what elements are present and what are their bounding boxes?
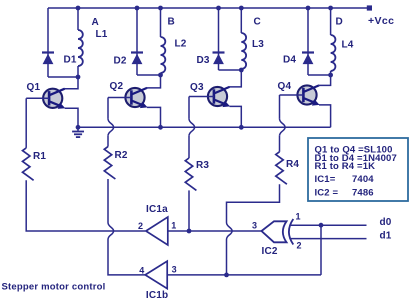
Q3 collector wire: [229, 70, 242, 87]
wire diode branch stage 4: [307, 8, 309, 75]
inverter IC1b (7404): [145, 261, 167, 288]
+Vcc terminal square: [367, 5, 372, 10]
wire stage 4 bottom junction: [308, 74, 331, 76]
wire emitter ground bus: [78, 126, 331, 128]
svg-text:C: C: [254, 17, 261, 28]
svg-text:R4: R4: [286, 159, 299, 170]
svg-text:d0: d0: [380, 217, 392, 228]
svg-text:D4: D4: [283, 55, 296, 66]
wire stage 1 bottom junction: [48, 76, 78, 78]
wire Q4 base drop (jumps bus): [279, 95, 281, 119]
svg-text:R3: R3: [196, 160, 209, 171]
wire diode branch stage 3: [218, 8, 220, 70]
op-amp/inverter IC1a (7404): [146, 217, 168, 245]
wire Q3 base drop (jumps bus): [188, 97, 190, 119]
svg-text:D2: D2: [114, 56, 127, 67]
wire d0 branch down to IC1b input: [320, 225, 322, 275]
svg-text:Stepper motor control: Stepper motor control: [2, 282, 106, 293]
node Q2 emitter on bus: [158, 125, 163, 130]
node stage 4 collector junction: [328, 73, 333, 78]
IC2 xor second input arc: [289, 219, 293, 245]
svg-text:L1: L1: [96, 29, 108, 40]
node stage 3 collector junction: [239, 68, 244, 73]
node A rail connections: [76, 6, 81, 11]
svg-text:IC1a: IC1a: [146, 204, 168, 215]
diode D4: [302, 51, 314, 53]
Q1 emitter wire: [65, 108, 78, 127]
wire stage 2 bottom junction: [137, 74, 161, 76]
svg-text:d1: d1: [380, 231, 392, 242]
resistor R2: [104, 147, 115, 179]
node IC1b input / R4 junction: [224, 273, 229, 278]
ground symbol: [72, 127, 84, 137]
Q4 collector wire: [318, 75, 331, 85]
node ground junction: [76, 125, 81, 130]
diode D3: [213, 51, 225, 53]
svg-text:IC1b: IC1b: [146, 290, 168, 300]
svg-text:Q3: Q3: [190, 82, 204, 93]
resistor R1: [23, 148, 34, 180]
Q2 emitter wire: [147, 107, 161, 127]
Q1 collector wire: [64, 77, 78, 89]
wire R4 bottom to d0 branch (jumps IC1a input wire): [227, 184, 280, 222]
svg-text:3: 3: [252, 221, 257, 231]
legend box: [308, 138, 408, 201]
svg-text:Q2: Q2: [110, 81, 124, 92]
svg-text:2: 2: [297, 241, 302, 251]
wire Q1 base to R1: [25, 98, 27, 148]
xor gate IC2 (7486): [262, 221, 287, 242]
resistor R4: [276, 152, 287, 184]
svg-text:L3: L3: [252, 39, 264, 50]
wire diode branch stage 1: [47, 8, 49, 77]
node IC1a input / R3 junction: [187, 229, 192, 234]
wire R1 bottom to IC1a output: [26, 180, 145, 231]
svg-text:IC2 =: IC2 =: [315, 187, 339, 198]
Q2 base lead: [108, 97, 131, 99]
Q3 base lead: [189, 96, 214, 98]
transistor Q3: [208, 87, 230, 107]
wire IC1a input from IC2 output: [168, 230, 262, 232]
svg-text:A: A: [92, 17, 99, 28]
svg-text:IC2: IC2: [262, 246, 278, 257]
svg-text:3: 3: [172, 265, 177, 275]
wire +Vcc top rail: [48, 7, 368, 9]
node D rail connections: [306, 6, 311, 11]
Q4 emitter wire: [319, 105, 331, 127]
svg-text:IC1=: IC1=: [315, 174, 336, 185]
node C rail connections: [216, 6, 221, 11]
svg-text:+Vcc: +Vcc: [368, 15, 394, 27]
wire d0 input line: [291, 224, 367, 226]
inductor L1 (winding A): [77, 8, 79, 30]
svg-text:Q1: Q1: [27, 82, 41, 93]
wire IC1b input line: [167, 274, 321, 276]
Q4 base lead: [280, 94, 304, 96]
inductor L3 (winding C): [240, 8, 242, 33]
svg-text:R1: R1: [33, 151, 46, 162]
node stage 2 collector junction: [158, 73, 163, 78]
resistor R3: [185, 158, 196, 190]
svg-text:L2: L2: [175, 39, 187, 50]
node Q3 emitter on bus: [239, 125, 244, 130]
svg-text:Q4: Q4: [278, 81, 292, 92]
transistor Q2: [125, 88, 147, 108]
wire Q2 base drop (jumps bus): [107, 98, 109, 119]
svg-text:2: 2: [138, 221, 143, 231]
node d0 branch junction: [319, 223, 324, 228]
svg-text:7404: 7404: [352, 174, 374, 185]
svg-text:1: 1: [296, 212, 301, 222]
svg-text:D: D: [336, 17, 343, 28]
svg-text:R2: R2: [115, 150, 128, 161]
transistor Q1: [43, 89, 65, 109]
inductor L2 (winding B): [160, 8, 162, 37]
diode D1: [42, 51, 54, 53]
node B rail connections: [135, 6, 140, 11]
node stage 1 collector junction: [76, 75, 81, 80]
Q3 emitter wire: [230, 106, 242, 127]
svg-text:D3: D3: [197, 55, 210, 66]
svg-text:L4: L4: [342, 40, 354, 51]
wire R2 bottom to IC1b output (jumps IC1a wire): [107, 179, 109, 223]
svg-text:D1: D1: [64, 55, 77, 66]
wire diode branch stage 2: [136, 8, 138, 75]
svg-text:R1 to R4 =1K: R1 to R4 =1K: [315, 161, 376, 172]
transistor Q4: [297, 85, 319, 105]
svg-text:7486: 7486: [352, 187, 374, 198]
inductor L4 (winding D): [330, 8, 332, 35]
wire R3 bottom to IC1a input: [188, 190, 190, 231]
Q1 base lead: [26, 97, 49, 99]
svg-text:B: B: [168, 17, 175, 28]
svg-text:4: 4: [139, 266, 144, 276]
wire stage 3 bottom junction: [219, 69, 242, 71]
diode D2: [131, 51, 143, 53]
Q2 collector wire: [146, 75, 161, 88]
svg-text:1: 1: [171, 221, 176, 231]
wire d1 input line: [291, 238, 367, 240]
